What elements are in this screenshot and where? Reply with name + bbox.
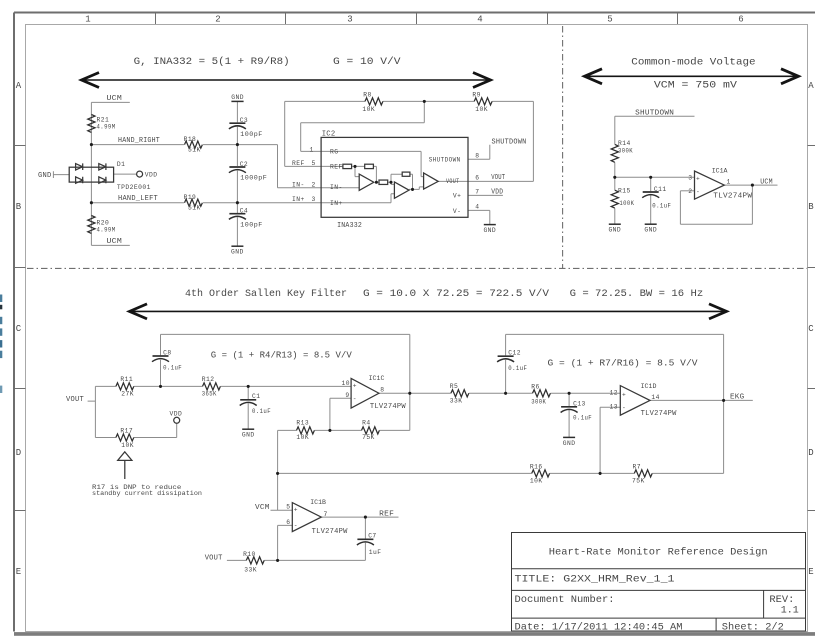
svg-text:E: E xyxy=(808,567,813,577)
svg-text:V+: V+ xyxy=(453,192,461,199)
svg-text:R12: R12 xyxy=(202,376,215,383)
svg-text:G = (1 + R7/R16) = 8.5 V/V: G = (1 + R7/R16) = 8.5 V/V xyxy=(548,359,699,369)
svg-text:1000pF: 1000pF xyxy=(240,175,267,182)
svg-text:IN+: IN+ xyxy=(292,196,305,203)
svg-text:-: - xyxy=(294,522,298,529)
svg-text:-: - xyxy=(622,405,626,412)
svg-text:REF: REF xyxy=(330,163,343,170)
svg-text:TLV274PW: TLV274PW xyxy=(370,403,406,411)
svg-text:1uF: 1uF xyxy=(369,549,382,556)
svg-text:1: 1 xyxy=(85,15,90,25)
svg-text:0.1uF: 0.1uF xyxy=(652,202,671,209)
svg-text:2: 2 xyxy=(215,15,220,25)
svg-text:IN+: IN+ xyxy=(330,200,343,207)
svg-text:SHUTDOWN: SHUTDOWN xyxy=(429,157,461,164)
svg-text:GND: GND xyxy=(38,172,52,180)
svg-text:C: C xyxy=(16,324,22,334)
svg-text:1.1: 1.1 xyxy=(781,605,799,617)
svg-text:standby current dissipation: standby current dissipation xyxy=(92,490,202,497)
svg-text:VOUT: VOUT xyxy=(205,554,223,562)
svg-text:R17: R17 xyxy=(120,427,133,434)
svg-text:C11: C11 xyxy=(654,186,667,193)
svg-text:R6: R6 xyxy=(531,383,539,390)
svg-text:5: 5 xyxy=(607,15,612,25)
svg-text:4: 4 xyxy=(477,15,482,25)
svg-text:R16: R16 xyxy=(530,463,543,470)
svg-text:GND: GND xyxy=(231,94,244,101)
svg-text:7: 7 xyxy=(475,188,479,195)
svg-text:V-: V- xyxy=(453,208,461,215)
svg-text:G = 10.0 X 72.25 = 722.5 V/V: G = 10.0 X 72.25 = 722.5 V/V xyxy=(363,288,550,300)
svg-text:G = 10 V/V: G = 10 V/V xyxy=(333,56,401,68)
svg-text:6: 6 xyxy=(286,519,290,526)
svg-text:0.1uF: 0.1uF xyxy=(252,408,271,415)
svg-text:10K: 10K xyxy=(362,106,375,113)
svg-text:+: + xyxy=(622,391,626,398)
svg-text:C: C xyxy=(808,324,814,334)
svg-text:C7: C7 xyxy=(368,533,376,540)
svg-text:-: - xyxy=(696,189,700,196)
svg-text:10K: 10K xyxy=(475,106,488,113)
svg-text:R19: R19 xyxy=(184,194,197,201)
svg-text:B: B xyxy=(16,202,22,212)
svg-text:IC1A: IC1A xyxy=(712,167,728,174)
svg-text:HAND_LEFT: HAND_LEFT xyxy=(118,195,158,203)
svg-text:4: 4 xyxy=(475,203,479,210)
svg-text:300K: 300K xyxy=(618,147,633,154)
svg-text:G = (1 + R4/R13) = 8.5 V/V: G = (1 + R4/R13) = 8.5 V/V xyxy=(211,351,353,361)
svg-text:TLV274PW: TLV274PW xyxy=(713,193,752,201)
svg-text:TLV274PW: TLV274PW xyxy=(641,410,677,418)
svg-text:UCM: UCM xyxy=(760,178,773,186)
svg-text:R13: R13 xyxy=(296,419,309,426)
svg-text:10K: 10K xyxy=(530,478,543,485)
svg-text:VDD: VDD xyxy=(491,189,503,197)
svg-text:33K: 33K xyxy=(244,567,257,574)
svg-text:3: 3 xyxy=(688,175,692,182)
svg-text:IN-: IN- xyxy=(330,184,343,191)
svg-text:75K: 75K xyxy=(362,434,375,441)
svg-text:UCM: UCM xyxy=(107,238,123,246)
svg-text:IC1B: IC1B xyxy=(310,499,326,506)
svg-text:5: 5 xyxy=(286,503,290,510)
svg-text:G, INA332 = 5(1 + R9/R8): G, INA332 = 5(1 + R9/R8) xyxy=(134,56,290,68)
svg-text:C3: C3 xyxy=(240,117,248,124)
svg-text:Common-mode Voltage: Common-mode Voltage xyxy=(631,57,755,69)
svg-text:0.1uF: 0.1uF xyxy=(573,415,592,422)
svg-text:R4: R4 xyxy=(362,419,370,426)
svg-text:C2: C2 xyxy=(240,161,248,168)
svg-text:TLV274PW: TLV274PW xyxy=(312,528,348,536)
svg-text:9: 9 xyxy=(345,392,349,399)
svg-text:C1: C1 xyxy=(252,393,260,400)
svg-text:12: 12 xyxy=(610,390,618,397)
svg-text:Date: 1/17/2011 12:40:45 AM: Date: 1/17/2011 12:40:45 AM xyxy=(515,622,683,634)
svg-text:5: 5 xyxy=(312,160,316,167)
svg-text:75K: 75K xyxy=(632,478,645,485)
svg-text:SHUTDOWN: SHUTDOWN xyxy=(492,138,527,146)
svg-text:10K: 10K xyxy=(296,434,309,441)
svg-text:33K: 33K xyxy=(450,398,463,405)
svg-text:51K: 51K xyxy=(188,147,201,154)
svg-text:R15: R15 xyxy=(618,187,631,194)
svg-text:6: 6 xyxy=(738,15,743,25)
svg-text:0.1uF: 0.1uF xyxy=(508,365,527,372)
svg-text:300K: 300K xyxy=(531,399,546,406)
svg-text:-: - xyxy=(353,395,357,402)
svg-text:EKG: EKG xyxy=(730,394,744,402)
svg-text:REF: REF xyxy=(379,510,394,518)
svg-text:R8: R8 xyxy=(363,92,371,99)
svg-text:4th Order Sallen Key Filter: 4th Order Sallen Key Filter xyxy=(185,288,347,300)
svg-text:C13: C13 xyxy=(573,400,586,407)
svg-text:R11: R11 xyxy=(120,376,133,383)
svg-text:100pF: 100pF xyxy=(240,131,262,138)
svg-text:VOUT: VOUT xyxy=(491,174,505,182)
svg-text:G = 72.25. BW = 16 Hz: G = 72.25. BW = 16 Hz xyxy=(570,288,704,300)
svg-text:C4: C4 xyxy=(240,208,248,215)
svg-text:VCM = 750 mV: VCM = 750 mV xyxy=(654,80,738,92)
svg-text:B: B xyxy=(808,202,814,212)
svg-text:VDD: VDD xyxy=(145,172,158,179)
svg-text:TITLE: G2XX_HRM_Rev_1_1: TITLE: G2XX_HRM_Rev_1_1 xyxy=(515,574,675,586)
svg-text:VOUT: VOUT xyxy=(446,178,460,185)
svg-text:2: 2 xyxy=(688,188,692,195)
svg-text:365K: 365K xyxy=(202,391,217,398)
svg-text:IC1D: IC1D xyxy=(641,383,657,390)
svg-text:1: 1 xyxy=(310,147,314,154)
svg-text:SHUTDOWN: SHUTDOWN xyxy=(635,110,674,118)
svg-text:IC1C: IC1C xyxy=(369,375,385,382)
svg-text:IC2: IC2 xyxy=(322,131,336,139)
svg-text:3: 3 xyxy=(347,15,352,25)
svg-text:2: 2 xyxy=(312,181,316,188)
svg-text:INA332: INA332 xyxy=(337,222,362,230)
svg-text:R14: R14 xyxy=(618,140,631,147)
svg-text:D1: D1 xyxy=(117,161,125,168)
svg-text:6: 6 xyxy=(475,174,479,181)
svg-text:+: + xyxy=(696,176,700,183)
svg-text:D: D xyxy=(808,448,813,458)
svg-text:10K: 10K xyxy=(121,442,134,449)
svg-text:4.99M: 4.99M xyxy=(97,123,116,130)
svg-text:14: 14 xyxy=(651,394,659,401)
svg-text:+: + xyxy=(294,507,298,514)
svg-text:R7: R7 xyxy=(633,463,641,470)
svg-text:100pF: 100pF xyxy=(240,221,262,228)
svg-text:VDD: VDD xyxy=(170,411,183,418)
svg-text:D: D xyxy=(16,448,21,458)
svg-text:1: 1 xyxy=(727,178,731,185)
svg-text:UCM: UCM xyxy=(107,95,123,103)
svg-text:7: 7 xyxy=(324,511,328,518)
svg-text:0.1uF: 0.1uF xyxy=(163,365,182,372)
svg-text:A: A xyxy=(808,81,814,91)
svg-text:Sheet: 2/2: Sheet: 2/2 xyxy=(722,622,784,634)
svg-text:3: 3 xyxy=(312,196,316,203)
svg-text:VCM: VCM xyxy=(255,504,270,512)
svg-text:8: 8 xyxy=(475,152,479,159)
svg-text:27K: 27K xyxy=(121,391,134,398)
svg-text:100K: 100K xyxy=(619,200,634,207)
svg-text:C8: C8 xyxy=(163,349,171,356)
svg-text:VOUT: VOUT xyxy=(66,396,84,404)
svg-text:TPD2E001: TPD2E001 xyxy=(117,184,151,191)
svg-text:Heart-Rate Monitor Reference D: Heart-Rate Monitor Reference Design xyxy=(549,547,768,559)
svg-text:+: + xyxy=(353,382,357,389)
svg-text:51K: 51K xyxy=(188,205,201,212)
svg-text:R10: R10 xyxy=(243,551,256,558)
svg-text:13: 13 xyxy=(610,404,618,411)
svg-text:HAND_RIGHT: HAND_RIGHT xyxy=(118,137,160,145)
svg-text:R9: R9 xyxy=(472,92,480,99)
svg-text:IN-: IN- xyxy=(292,181,305,188)
svg-text:R5: R5 xyxy=(450,383,458,390)
svg-text:Document Number:: Document Number: xyxy=(515,594,615,606)
svg-text:A: A xyxy=(16,81,22,91)
svg-text:C12: C12 xyxy=(508,350,521,357)
svg-text:RG: RG xyxy=(330,148,338,155)
svg-text:R18: R18 xyxy=(184,136,197,143)
svg-text:REF: REF xyxy=(292,160,305,167)
svg-text:10: 10 xyxy=(342,380,350,387)
svg-text:4.99M: 4.99M xyxy=(97,226,116,233)
svg-text:E: E xyxy=(16,567,21,577)
svg-text:8: 8 xyxy=(380,387,384,394)
